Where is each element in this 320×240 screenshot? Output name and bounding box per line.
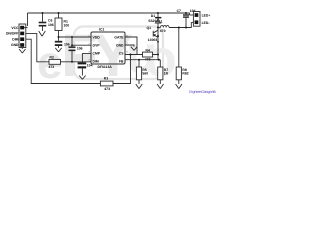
svg-text:EngineersGarage.info: EngineersGarage.info — [189, 89, 217, 94]
svg-text:106: 106 — [48, 23, 54, 27]
svg-text:473: 473 — [104, 87, 110, 91]
svg-text:13003: 13003 — [148, 38, 158, 42]
svg-text:106: 106 — [64, 42, 70, 46]
svg-text:470: 470 — [160, 29, 166, 33]
svg-text:560: 560 — [142, 72, 148, 76]
svg-text:R2: R2 — [50, 56, 54, 60]
svg-text:D1: D1 — [151, 14, 155, 18]
svg-text:CS: CS — [119, 51, 124, 55]
svg-text:ON/OFF: ON/OFF — [6, 32, 19, 36]
svg-text:CMP: CMP — [93, 51, 101, 55]
svg-text:R82: R82 — [182, 72, 188, 76]
svg-text:Q1: Q1 — [147, 26, 152, 30]
svg-text:FB: FB — [119, 59, 124, 63]
svg-text:DIM: DIM — [93, 59, 99, 63]
svg-text:GND: GND — [116, 43, 124, 47]
svg-text:R3: R3 — [104, 76, 108, 80]
svg-text:DIM: DIM — [12, 37, 18, 41]
svg-text:VDD: VDD — [93, 35, 101, 39]
svg-text:473: 473 — [49, 65, 55, 69]
svg-text:106: 106 — [77, 46, 83, 50]
svg-text:VCC: VCC — [11, 26, 19, 30]
svg-text:L1: L1 — [159, 19, 163, 23]
svg-text:100: 100 — [64, 23, 70, 27]
svg-text:LED+: LED+ — [202, 13, 211, 17]
svg-text:1R: 1R — [164, 72, 169, 76]
svg-text:GND: GND — [11, 43, 19, 47]
svg-text:C6: C6 — [48, 18, 52, 22]
svg-text:DF6113A: DF6113A — [98, 65, 113, 69]
svg-text:LED-: LED- — [202, 21, 210, 25]
svg-text:SS210: SS210 — [148, 19, 158, 23]
svg-text:R4: R4 — [146, 48, 150, 52]
svg-text:IC1: IC1 — [99, 27, 104, 31]
svg-text:OVP: OVP — [93, 43, 101, 47]
svg-text:C7: C7 — [177, 9, 181, 13]
svg-text:GATE: GATE — [114, 35, 124, 39]
